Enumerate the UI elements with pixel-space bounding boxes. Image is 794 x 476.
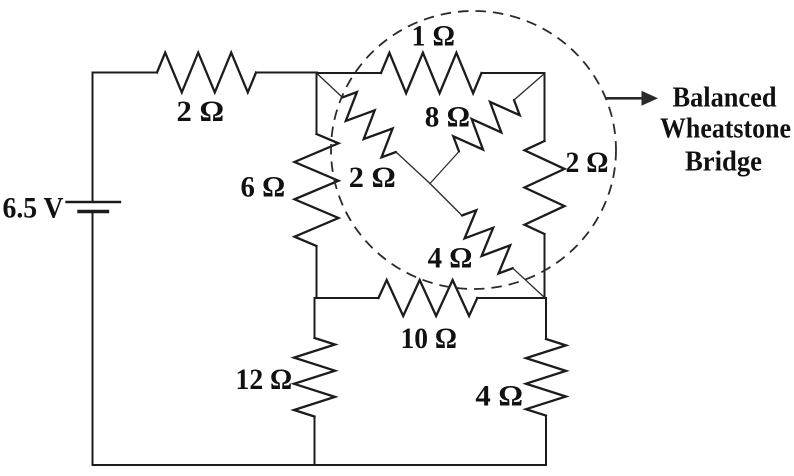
wire lead A to 2ohm arm xyxy=(317,74,342,98)
resistor R 6ohm zigzag xyxy=(295,134,339,246)
resistor R 2ohm bridge arm zigzag xyxy=(342,92,396,157)
svg-text:1 Ω: 1 Ω xyxy=(412,21,456,53)
svg-text:12 Ω: 12 Ω xyxy=(236,364,293,396)
wire top-left horizontal xyxy=(93,72,158,74)
svg-text:2 Ω: 2 Ω xyxy=(177,96,225,128)
resistor R 2ohm right zigzag xyxy=(525,141,565,234)
wire 4ohm right to bottom xyxy=(545,416,547,465)
wire top middle to node A xyxy=(256,72,317,74)
wire lead 8ohm arm to node B xyxy=(514,74,545,101)
wire lead 2ohm arm to node C xyxy=(396,152,430,184)
wire lead 4ohm arm to node D xyxy=(513,268,545,298)
wire node A to 1ohm xyxy=(317,72,381,74)
battery V1 short plate xyxy=(79,210,108,213)
label Balanced Wheatstone Bridge xyxy=(660,83,791,178)
battery V1 long plate xyxy=(67,201,121,203)
svg-text:2 Ω: 2 Ω xyxy=(566,147,609,179)
resistor R 1ohm bridge top zigzag xyxy=(381,53,482,93)
wire lead node C to 4ohm arm xyxy=(430,184,462,216)
wire node B down xyxy=(544,73,546,141)
wire bottom horizontal xyxy=(93,464,547,466)
wire node A down xyxy=(316,73,318,134)
wire 6ohm to node E xyxy=(316,246,318,298)
resistor R 8ohm bridge arm zigzag xyxy=(453,100,519,152)
wire node E right xyxy=(315,297,379,299)
resistor R 4ohm right zigzag xyxy=(526,339,566,416)
svg-text:8 Ω: 8 Ω xyxy=(425,102,470,134)
resistor R 12ohm zigzag xyxy=(294,338,335,417)
wire node E down xyxy=(314,298,316,338)
arrow to label xyxy=(607,91,659,106)
svg-text:6 Ω: 6 Ω xyxy=(241,172,286,204)
resistor R 4ohm bridge arm zigzag xyxy=(462,210,513,273)
wire 10ohm to node D xyxy=(477,297,545,299)
wire lead node C to 8ohm arm xyxy=(430,152,459,184)
resistor R 2ohm top zigzag xyxy=(157,53,256,93)
svg-text:4 Ω: 4 Ω xyxy=(475,381,523,413)
wire node D down xyxy=(545,298,547,339)
wire left vertical upper (battery +) xyxy=(92,73,94,203)
svg-text:6.5 V: 6.5 V xyxy=(3,192,64,225)
svg-text:Balanced: Balanced xyxy=(673,83,777,114)
svg-text:Bridge: Bridge xyxy=(685,146,762,177)
wire 2ohm right to node D xyxy=(544,234,546,298)
svg-text:4 Ω: 4 Ω xyxy=(428,243,473,275)
dashed circle around bridge xyxy=(331,11,616,289)
wire 12ohm to bottom xyxy=(314,417,316,466)
svg-text:10 Ω: 10 Ω xyxy=(401,323,458,355)
wire 1ohm to node B xyxy=(482,72,545,74)
svg-text:Wheatstone: Wheatstone xyxy=(660,114,791,145)
svg-text:2 Ω: 2 Ω xyxy=(349,162,396,194)
resistor R 10ohm zigzag xyxy=(379,280,478,316)
wire left vertical lower xyxy=(92,212,94,466)
